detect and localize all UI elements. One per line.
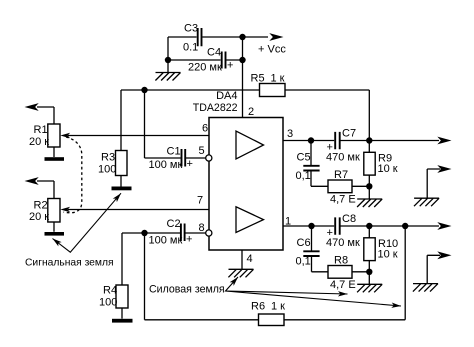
svg-text:20 к: 20 к — [29, 136, 49, 148]
svg-text:100: 100 — [98, 164, 116, 176]
svg-text:220 мк: 220 мк — [188, 62, 222, 74]
svg-text:TDA2822: TDA2822 — [193, 102, 238, 114]
svg-text:R3: R3 — [101, 152, 115, 164]
svg-text:100 мк: 100 мк — [149, 159, 183, 171]
svg-text:R4: R4 — [103, 285, 117, 297]
svg-text:+ Vcc: + Vcc — [258, 44, 286, 56]
svg-text:C3: C3 — [184, 23, 198, 35]
svg-text:470 мк: 470 мк — [326, 237, 360, 249]
svg-text:1 к: 1 к — [271, 73, 285, 85]
svg-text:R8: R8 — [334, 255, 348, 267]
svg-text:R2: R2 — [34, 200, 48, 212]
svg-text:6: 6 — [202, 123, 208, 135]
svg-text:R5: R5 — [251, 73, 265, 85]
svg-text:4: 4 — [247, 253, 253, 265]
svg-text:0,1: 0,1 — [296, 256, 311, 268]
svg-text:Силовая земля: Силовая земля — [149, 284, 225, 296]
svg-text:C6: C6 — [297, 237, 311, 249]
svg-text:0,1: 0,1 — [296, 170, 311, 182]
svg-text:+: + — [187, 158, 193, 170]
svg-text:+: + — [186, 234, 192, 246]
svg-text:C1: C1 — [167, 146, 181, 158]
svg-text:2: 2 — [248, 106, 254, 118]
svg-text:R6: R6 — [251, 301, 265, 313]
svg-text:1 к: 1 к — [271, 301, 285, 313]
svg-text:C8: C8 — [342, 213, 356, 225]
svg-text:C7: C7 — [342, 128, 356, 140]
svg-text:470 мк: 470 мк — [326, 152, 360, 164]
svg-text:C5: C5 — [297, 152, 311, 164]
svg-text:100: 100 — [99, 297, 117, 309]
svg-text:4,7 Е: 4,7 Е — [330, 194, 356, 206]
svg-text:0.1: 0.1 — [183, 42, 198, 54]
svg-text:R1: R1 — [34, 124, 48, 136]
svg-text:Сигнальная земля: Сигнальная земля — [25, 258, 114, 269]
svg-text:4,7 Е: 4,7 Е — [330, 279, 356, 291]
svg-text:DA4: DA4 — [216, 90, 237, 102]
svg-text:7: 7 — [197, 195, 203, 207]
svg-text:100 мк: 100 мк — [149, 235, 183, 247]
svg-text:R7: R7 — [334, 169, 348, 181]
svg-text:1: 1 — [285, 216, 291, 228]
svg-text:5: 5 — [199, 145, 205, 157]
svg-text:8: 8 — [199, 222, 205, 234]
svg-text:+: + — [227, 60, 233, 72]
svg-text:10 к: 10 к — [378, 249, 398, 261]
svg-text:C2: C2 — [167, 218, 181, 230]
svg-text:20 к: 20 к — [29, 211, 49, 223]
svg-text:C4: C4 — [207, 47, 221, 59]
svg-text:10 к: 10 к — [378, 163, 398, 175]
svg-text:3: 3 — [287, 128, 293, 140]
